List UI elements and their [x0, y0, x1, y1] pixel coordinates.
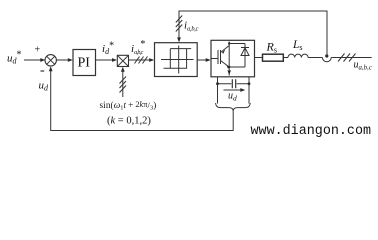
svg-text:ia,b,c: ia,b,c — [184, 20, 199, 33]
svg-text:ua,b,c: ua,b,c — [354, 60, 372, 72]
svg-text:Rs: Rs — [266, 40, 277, 55]
svg-text:+: + — [35, 45, 41, 56]
svg-text:PI: PI — [78, 56, 91, 71]
svg-text:ia,b,c*: ia,b,c* — [131, 39, 145, 56]
svg-text:www.diangon.com: www.diangon.com — [251, 124, 372, 139]
svg-text:sin(ω1t + 2kπ/3): sin(ω1t + 2kπ/3) — [100, 100, 157, 112]
svg-text:id*: id* — [102, 40, 114, 56]
svg-text:ud: ud — [39, 80, 50, 93]
svg-text:(k = 0,1,2): (k = 0,1,2) — [107, 116, 151, 127]
svg-text:Ls: Ls — [292, 39, 303, 52]
svg-text:ud*: ud* — [7, 50, 22, 66]
svg-text:ud: ud — [228, 91, 237, 103]
